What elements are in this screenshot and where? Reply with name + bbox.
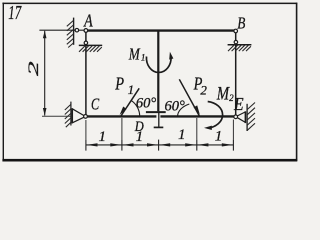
pin circle at node A bbox=[84, 29, 88, 33]
force P2 arrowhead bbox=[194, 105, 200, 114]
extension line under P2 point bbox=[196, 118, 198, 140]
ground line below A bbox=[79, 44, 102, 46]
force P1 arrowhead bbox=[120, 107, 127, 116]
angle arc 60 at P1 bbox=[131, 100, 140, 116]
dimension tick under P1 bbox=[121, 140, 123, 151]
support triangle base at C bbox=[71, 108, 73, 123]
svg-text:60°: 60° bbox=[164, 99, 185, 115]
border frame right bbox=[296, 3, 298, 162]
extension line under C bbox=[85, 120, 87, 140]
dimension tick under E bbox=[232, 140, 234, 151]
wall hatching at C bbox=[65, 105, 71, 128]
force P1 line of action bbox=[121, 88, 140, 116]
moment M2 arc bbox=[208, 102, 223, 129]
beam AB (top horizontal member) bbox=[84, 29, 237, 31]
pin circle at wall end bbox=[75, 28, 79, 32]
dimension arrow down bbox=[43, 108, 47, 116]
slider pin at D bbox=[158, 112, 160, 127]
beam DE (bottom right part) bbox=[160, 115, 236, 117]
dimension arrows segment C-P1 bbox=[86, 143, 97, 146]
svg-text:17: 17 bbox=[8, 1, 21, 23]
slider T-bar at D bbox=[146, 111, 166, 113]
wall hatching at A bbox=[67, 21, 74, 48]
svg-text:P: P bbox=[114, 73, 124, 94]
extension line under E bbox=[232, 120, 234, 140]
wall at E (vertical, hatched right) bbox=[246, 104, 248, 131]
dimension extension at C level bbox=[42, 115, 71, 117]
svg-text:E: E bbox=[233, 94, 244, 114]
moment M1 arrowhead bbox=[169, 52, 173, 60]
pin circle at A ground link bbox=[84, 41, 88, 45]
wall hatching at E bbox=[247, 103, 255, 131]
svg-text:1: 1 bbox=[178, 127, 186, 143]
right column B-E bbox=[235, 31, 237, 117]
link wall-A plus dimension extension line bbox=[39, 29, 84, 31]
support triangle at E bbox=[237, 112, 245, 123]
svg-text:2: 2 bbox=[229, 93, 234, 103]
wall at C (vertical, hatched left) bbox=[70, 102, 72, 126]
support triangle base at E bbox=[244, 111, 246, 123]
dimension tick under D bbox=[158, 140, 160, 151]
left column A-C bbox=[85, 31, 87, 117]
wall at A (vertical, hatched left) bbox=[73, 18, 75, 45]
svg-text:M: M bbox=[216, 83, 230, 104]
svg-text:C: C bbox=[91, 96, 99, 114]
force P2 line of action bbox=[179, 79, 199, 116]
pin circle at B ground link bbox=[234, 40, 238, 44]
dimension tick at C bbox=[85, 140, 87, 151]
ground hatching below A bbox=[79, 46, 102, 52]
border frame bottom bbox=[2, 159, 297, 162]
support triangle at C bbox=[72, 109, 84, 123]
border frame top bbox=[2, 3, 297, 5]
angle arc 60 at P2 bbox=[178, 104, 190, 116]
pin circle at node B bbox=[234, 29, 238, 33]
svg-text:60°: 60° bbox=[136, 96, 157, 112]
beam CD (bottom left part) bbox=[84, 115, 156, 117]
svg-text:B: B bbox=[237, 14, 245, 33]
svg-text:1: 1 bbox=[98, 129, 106, 145]
dimension arrows segment P1-D bbox=[122, 143, 133, 146]
dimension arrows segment P2-E bbox=[197, 143, 208, 146]
ground line below B bbox=[228, 44, 252, 46]
svg-text:1: 1 bbox=[136, 129, 144, 145]
border frame left bbox=[3, 3, 4, 162]
central bar (from beam AB down to slider D) bbox=[157, 31, 159, 112]
extension line under P1 point bbox=[121, 118, 123, 140]
svg-text:2: 2 bbox=[200, 83, 207, 98]
svg-text:2: 2 bbox=[25, 61, 42, 76]
vertical dimension line for 2 bbox=[44, 31, 46, 116]
dimension tick under P2 bbox=[196, 140, 198, 151]
svg-text:M: M bbox=[128, 45, 141, 64]
svg-text:1: 1 bbox=[128, 82, 135, 97]
pin circle at node C bbox=[84, 115, 88, 119]
pin circle at node E bbox=[234, 115, 238, 119]
ground hatching below B bbox=[228, 45, 251, 51]
svg-text:1: 1 bbox=[215, 129, 223, 145]
horizontal dimension line 1,1,1,1 bbox=[86, 144, 234, 146]
paper background bbox=[0, 0, 300, 165]
svg-text:1: 1 bbox=[141, 53, 146, 63]
dimension arrows segment D-P2 bbox=[159, 143, 170, 146]
moment M1 arc bbox=[146, 57, 171, 73]
slider lower plate at D bbox=[154, 126, 164, 128]
moment M2 arrowhead bbox=[204, 126, 212, 130]
dimension arrow up bbox=[43, 31, 47, 39]
svg-text:A: A bbox=[83, 12, 93, 31]
